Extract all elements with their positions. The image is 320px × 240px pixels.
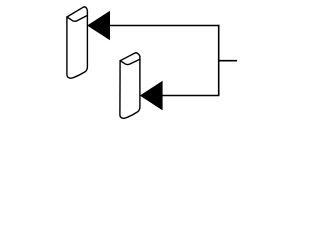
wire W3 stub [219, 60, 237, 62]
arrow A1 [88, 12, 110, 40]
wire W2 right vertical [218, 25, 220, 96]
rod electrode E1 [67, 7, 88, 78]
wire W1 top horizontal [110, 25, 220, 27]
rod electrode E2 [120, 53, 140, 119]
arrow A2 [141, 82, 162, 110]
wire W4 bottom horizontal [162, 95, 219, 97]
